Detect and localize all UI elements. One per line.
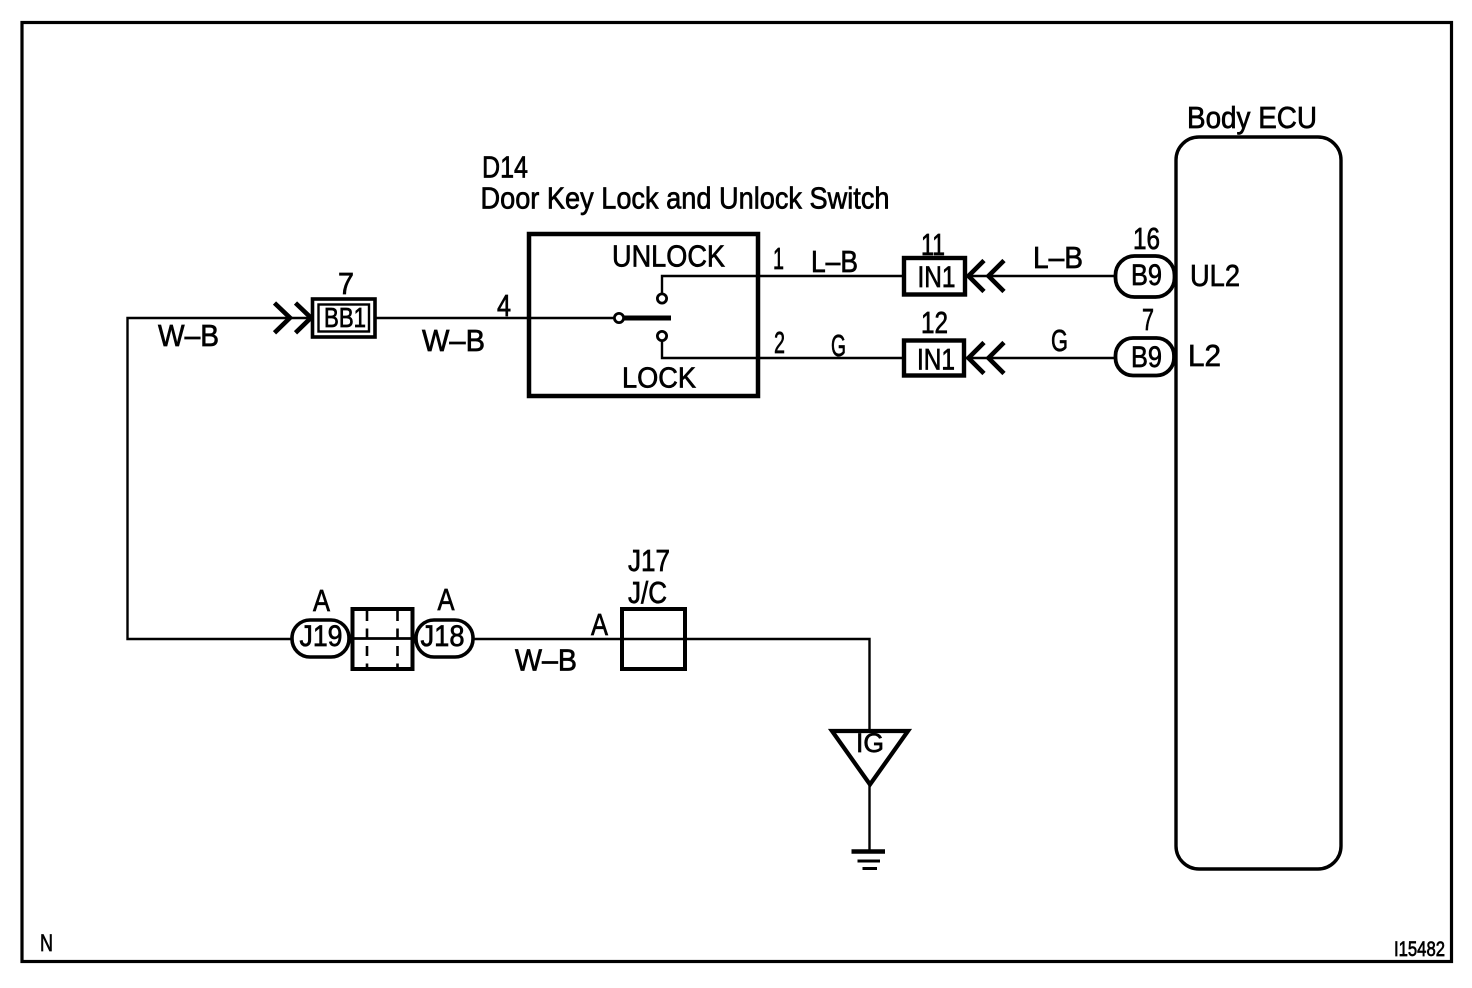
svg-text:1: 1 (773, 241, 784, 276)
svg-text:IN1: IN1 (917, 344, 955, 377)
svg-text:G: G (831, 328, 846, 363)
svg-text:W–B: W–B (422, 323, 485, 358)
svg-text:B9: B9 (1131, 341, 1162, 374)
svg-text:J/C: J/C (628, 575, 667, 610)
svg-text:7: 7 (338, 266, 354, 301)
svg-text:J19: J19 (300, 620, 343, 653)
svg-text:W–B: W–B (158, 318, 219, 353)
svg-text:16: 16 (1133, 221, 1160, 256)
svg-text:L–B: L–B (1033, 240, 1083, 275)
svg-text:A: A (591, 607, 608, 642)
svg-text:Body ECU: Body ECU (1187, 100, 1317, 135)
svg-text:2: 2 (774, 325, 785, 360)
svg-text:J17: J17 (628, 543, 670, 578)
svg-text:A: A (313, 583, 330, 618)
svg-text:BB1: BB1 (324, 302, 366, 333)
svg-text:L–B: L–B (811, 244, 858, 279)
svg-text:11: 11 (921, 227, 945, 262)
svg-text:LOCK: LOCK (622, 363, 697, 395)
svg-text:D14: D14 (482, 150, 528, 185)
svg-text:Door Key Lock and Unlock Switc: Door Key Lock and Unlock Switch (481, 181, 890, 216)
svg-text:UL2: UL2 (1190, 258, 1240, 293)
svg-text:7: 7 (1142, 302, 1154, 337)
svg-text:I15482: I15482 (1394, 938, 1445, 961)
svg-text:4: 4 (497, 288, 511, 323)
svg-text:A: A (438, 582, 455, 617)
svg-text:W–B: W–B (515, 643, 577, 678)
svg-text:IG: IG (856, 728, 884, 758)
svg-text:B9: B9 (1131, 259, 1162, 292)
svg-text:N: N (40, 930, 53, 957)
svg-text:J18: J18 (421, 620, 465, 653)
svg-text:IN1: IN1 (918, 261, 956, 294)
svg-text:G: G (1051, 323, 1068, 358)
svg-text:12: 12 (921, 305, 948, 340)
svg-text:L2: L2 (1188, 338, 1221, 373)
svg-text:UNLOCK: UNLOCK (612, 239, 725, 274)
